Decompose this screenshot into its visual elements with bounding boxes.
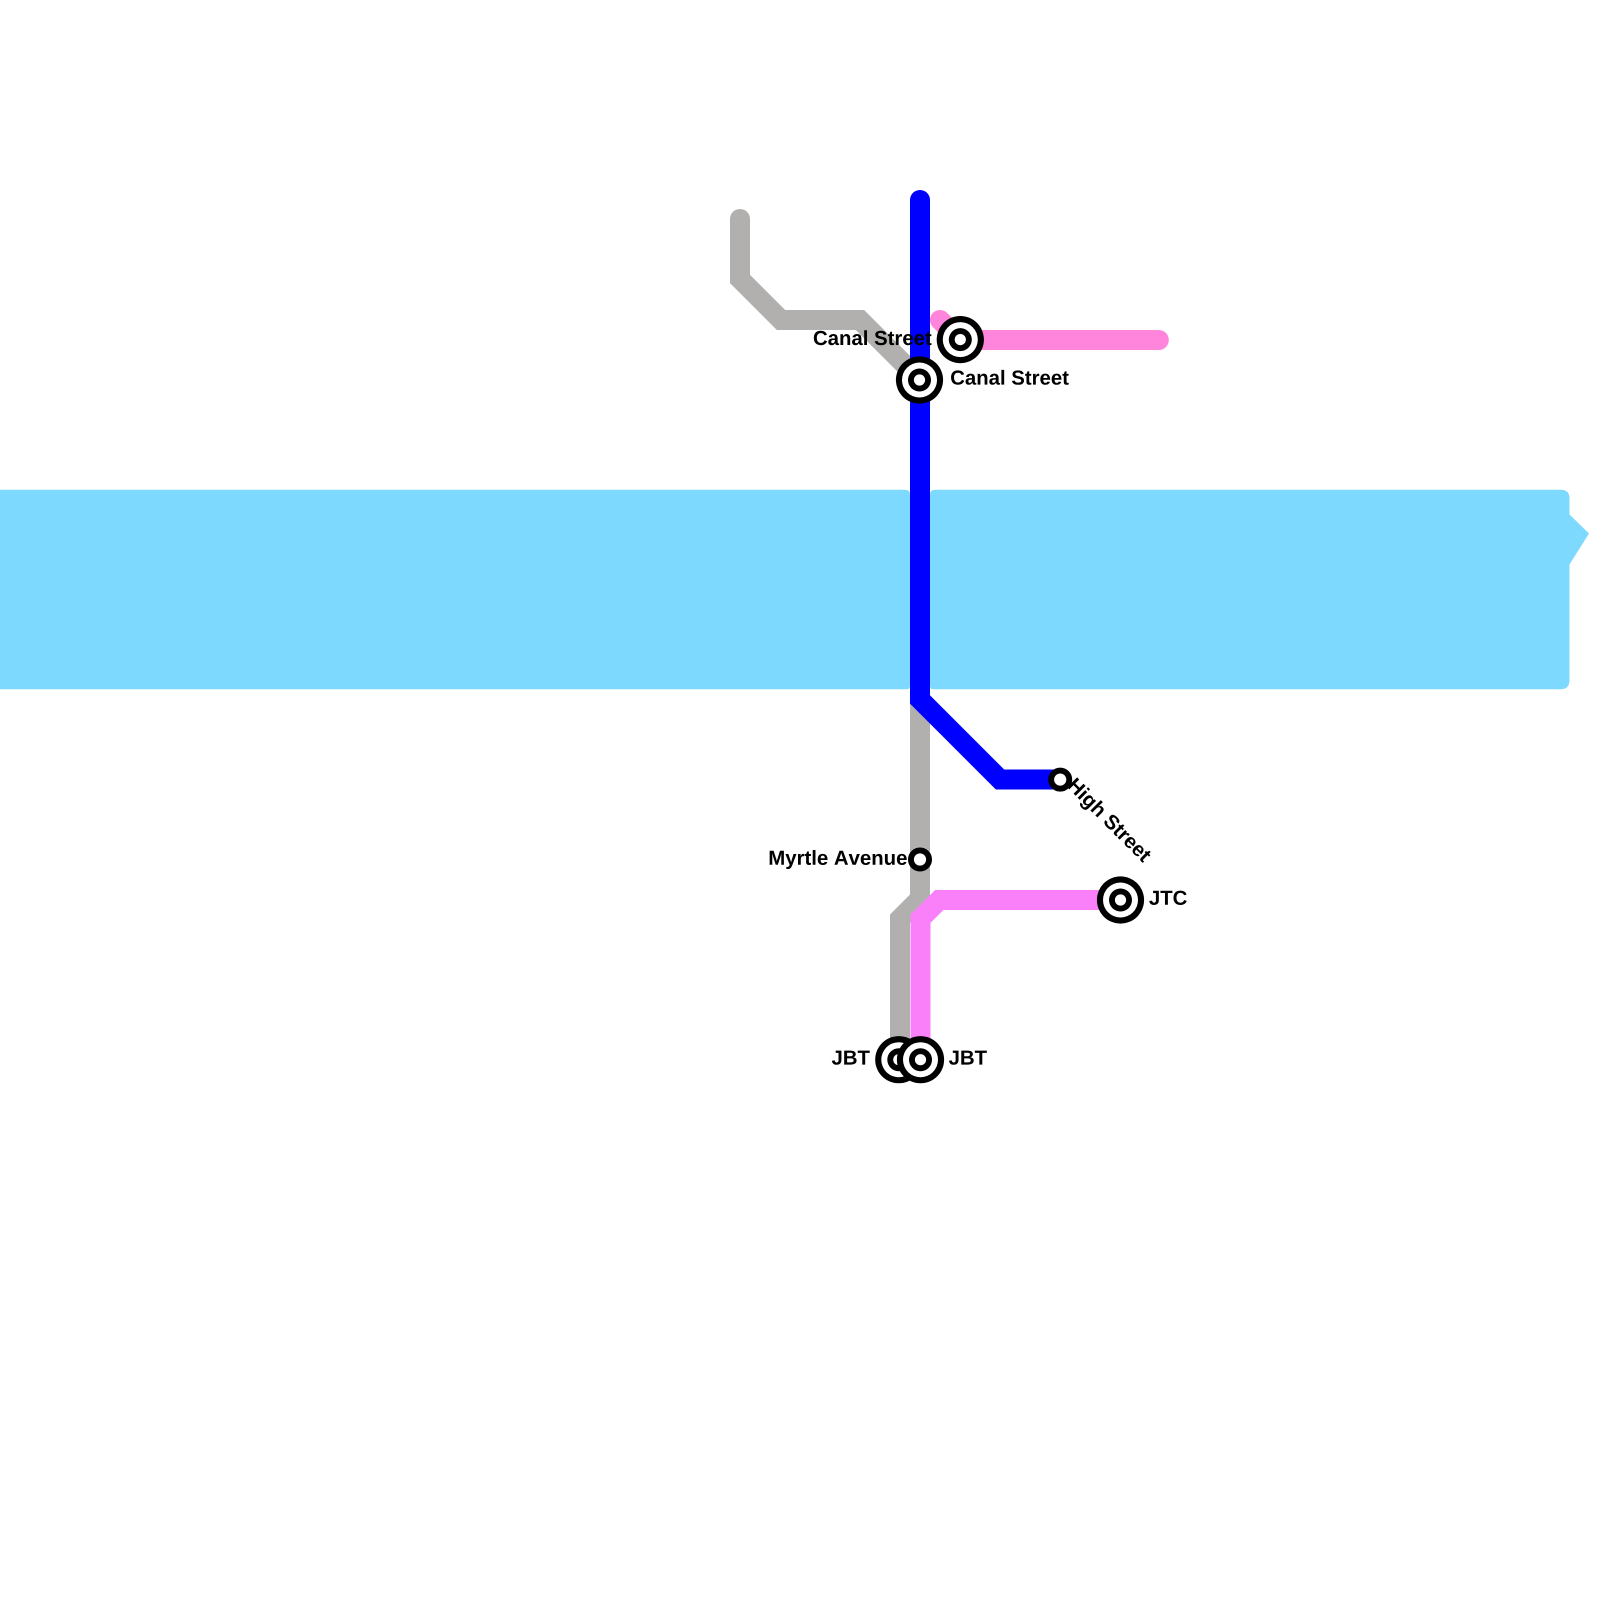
- blue line: [920, 200, 1061, 780]
- label JBT east: [949, 1051, 987, 1065]
- label JTC: [1149, 891, 1187, 905]
- interchange station JBT (gray, west): [875, 1036, 922, 1083]
- label Canal Street (blue station): [951, 370, 1069, 385]
- label JBT west: [832, 1051, 870, 1065]
- label Myrtle Avenue: [770, 850, 907, 869]
- interchange station Canal Street (pink): [937, 316, 984, 363]
- gray line: [740, 219, 920, 1060]
- river east segment with flow arrow: [930, 490, 1589, 690]
- interchange station JBT (pink, east): [897, 1036, 944, 1083]
- label High Street (rotated 45): [1064, 777, 1153, 866]
- pink line lower branch (JBT to JTC): [921, 900, 1121, 1060]
- small station High Street: [1051, 771, 1069, 789]
- small station Myrtle Avenue: [911, 850, 929, 868]
- interchange station JTC: [1097, 876, 1144, 923]
- interchange station Canal Street (blue/gray): [896, 356, 943, 403]
- river west segment: [0, 490, 910, 690]
- pink line upper (Canal Street east): [940, 320, 1159, 340]
- label Canal Street (pink station): [814, 330, 932, 345]
